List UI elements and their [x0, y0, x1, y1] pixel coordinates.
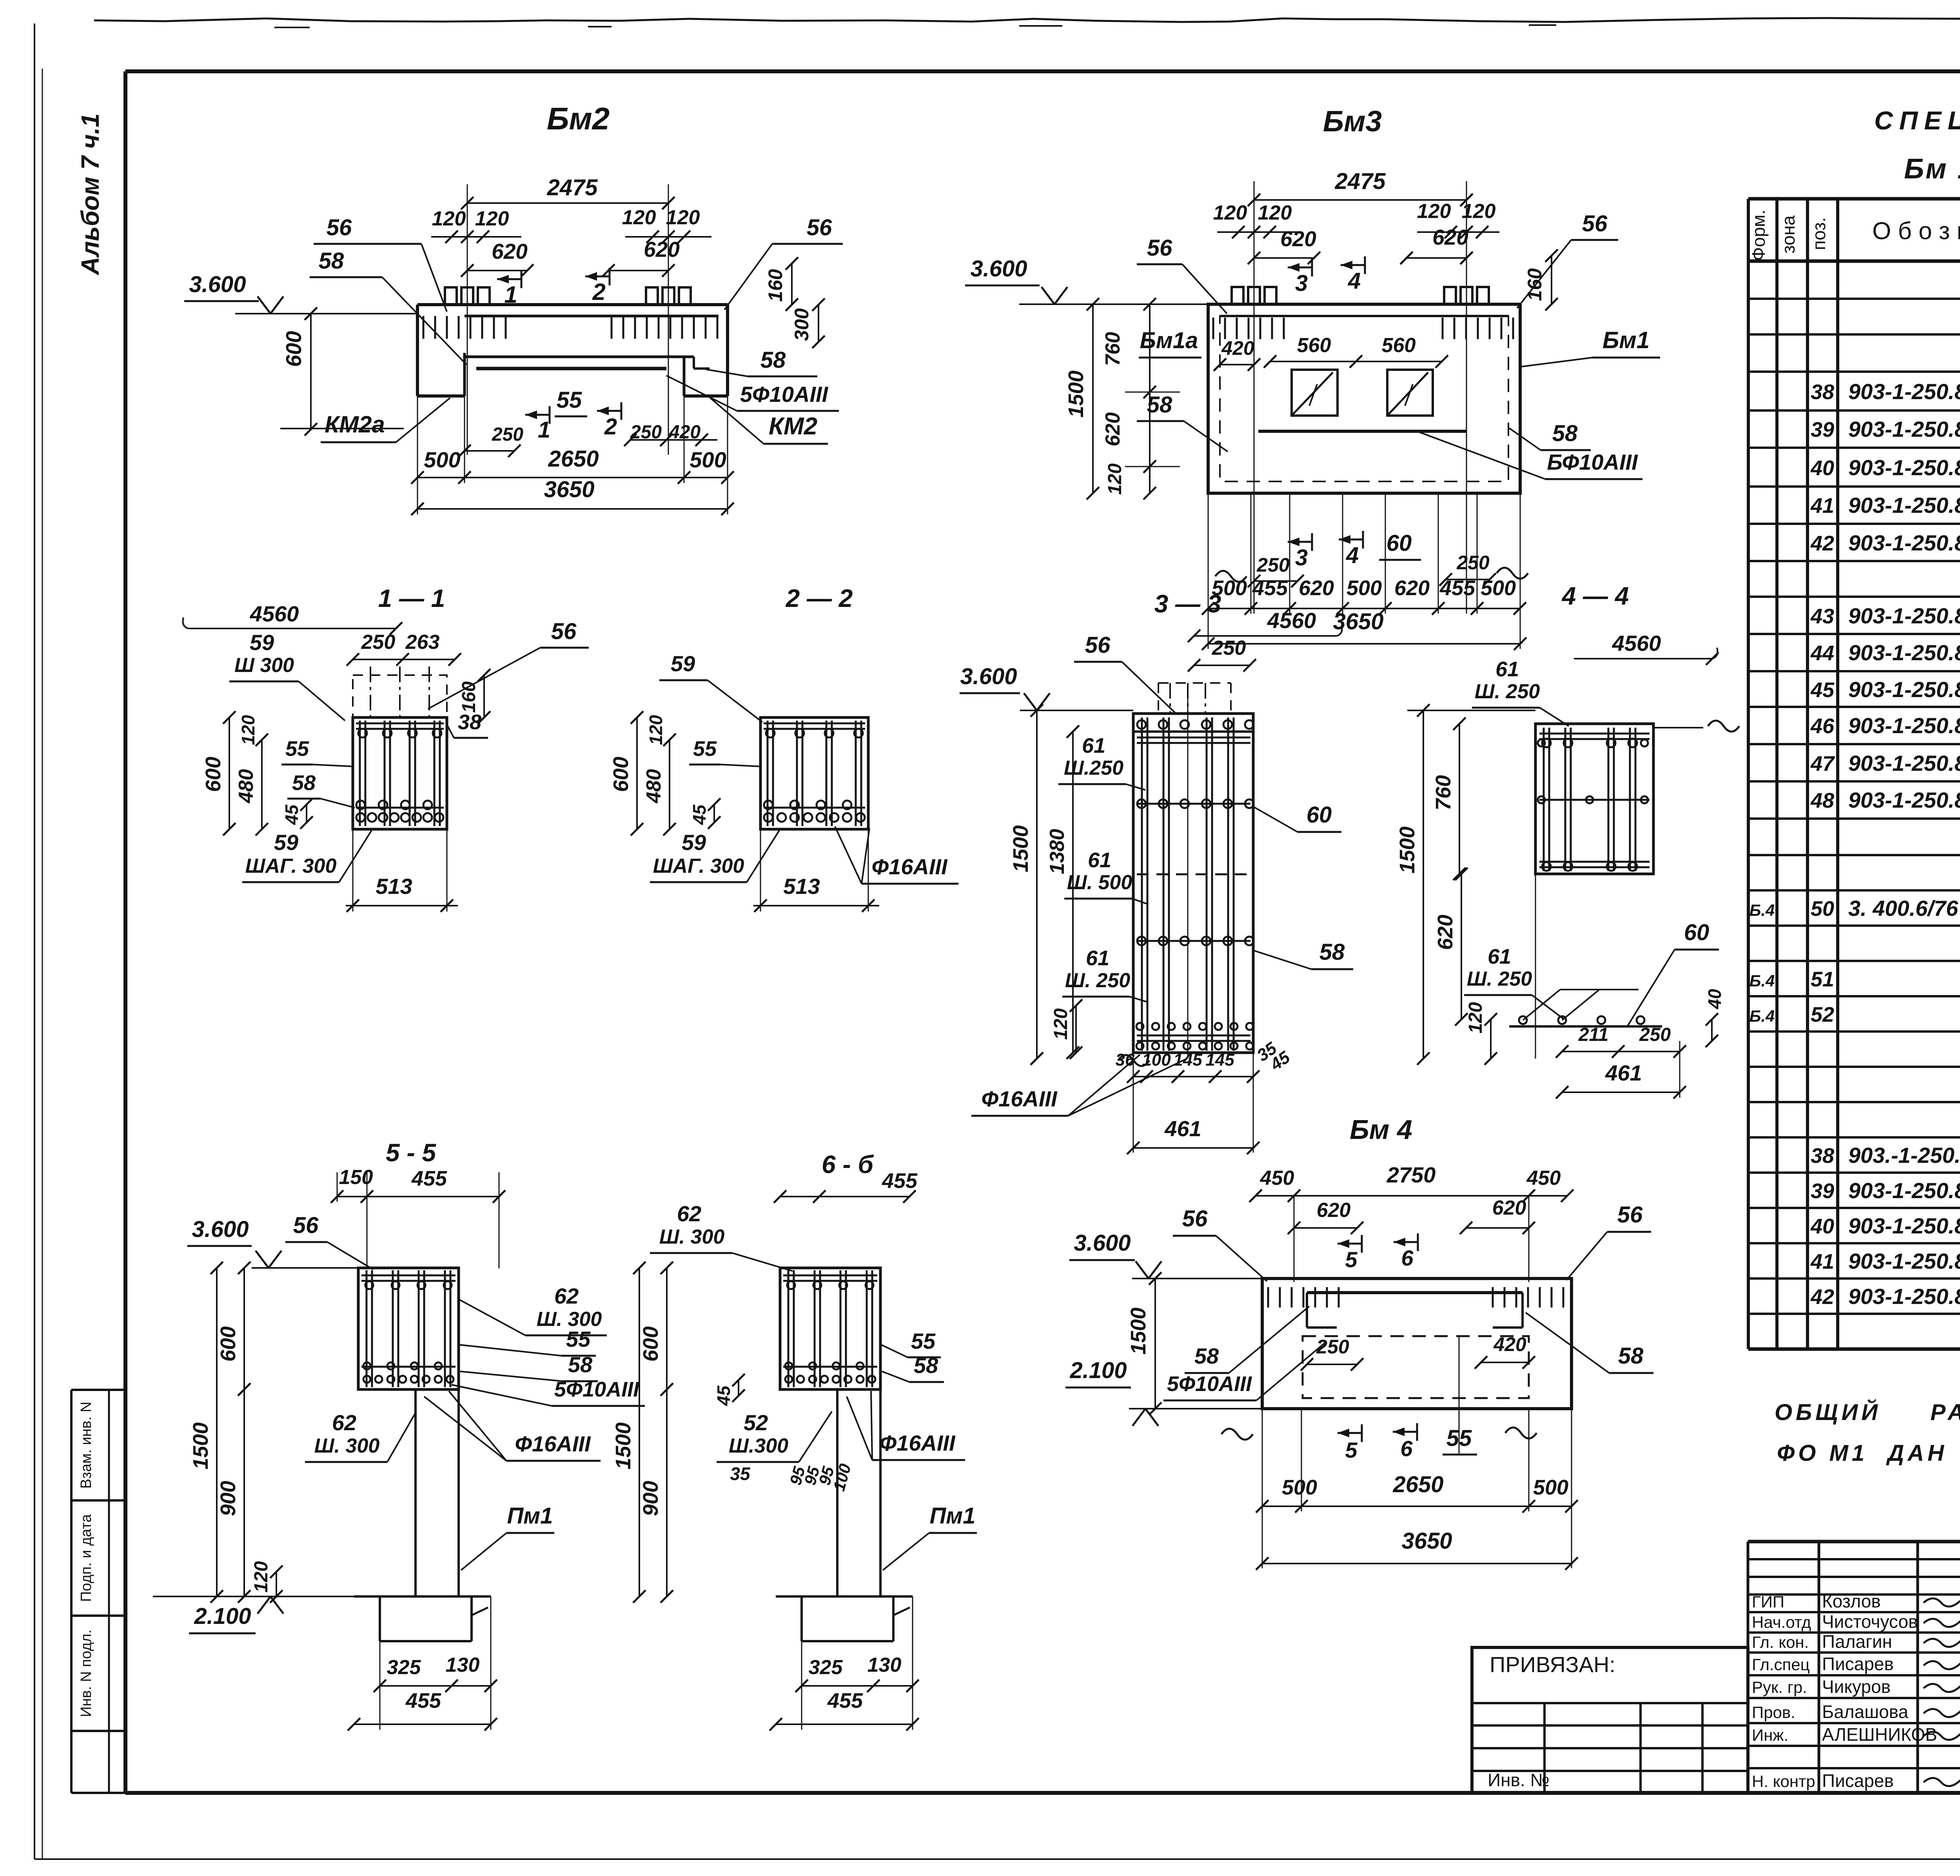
- svg-text:620: 620: [1102, 412, 1124, 447]
- svg-text:900: 900: [216, 1481, 240, 1516]
- svg-text:513: 513: [783, 874, 820, 899]
- svg-text:2750: 2750: [1387, 1162, 1436, 1187]
- svg-text:620: 620: [1299, 576, 1334, 600]
- svg-text:БФ10АIII: БФ10АIII: [1547, 450, 1638, 474]
- svg-text:55: 55: [911, 1329, 936, 1353]
- svg-text:56: 56: [1182, 1206, 1208, 1231]
- svg-text:61: 61: [1088, 848, 1111, 872]
- svg-text:620: 620: [492, 239, 528, 263]
- svg-text:Форм.: Форм.: [1748, 210, 1769, 261]
- svg-text:Взам. инв. N: Взам. инв. N: [78, 1402, 94, 1489]
- svg-text:42: 42: [1810, 532, 1834, 555]
- svg-text:130: 130: [446, 1654, 480, 1676]
- svg-text:2.100: 2.100: [194, 1604, 251, 1629]
- svg-text:5Ф10АIII: 5Ф10АIII: [554, 1378, 639, 1401]
- svg-text:903.-1-250.87- КЖ.И.7.3: 903.-1-250.87- КЖ.И.7.3: [1848, 1143, 1960, 1168]
- svg-text:зона: зона: [1778, 215, 1798, 254]
- svg-text:Инв. №: Инв. №: [1488, 1770, 1550, 1790]
- svg-text:Ш. 250: Ш. 250: [1065, 969, 1131, 992]
- svg-text:Нач.отд: Нач.отд: [1752, 1613, 1811, 1631]
- svg-text:56: 56: [327, 215, 352, 240]
- svg-text:1500: 1500: [1127, 1308, 1150, 1355]
- svg-text:903-1-250.87-КЖ.И. 7.7: 903-1-250.87-КЖ.И. 7.7: [1848, 677, 1960, 702]
- svg-text:620: 620: [1492, 1197, 1526, 1219]
- svg-text:Пров.: Пров.: [1752, 1703, 1795, 1722]
- svg-text:2650: 2650: [1392, 1472, 1443, 1497]
- svg-text:150: 150: [339, 1166, 373, 1189]
- svg-text:55: 55: [557, 387, 582, 413]
- svg-text:903-1-250.87-КЖ.И. 7.4: 903-1-250.87-КЖ.И. 7.4: [1848, 493, 1960, 518]
- svg-text:Ф16АIII: Ф16АIII: [515, 1431, 591, 1456]
- svg-text:903-1-250.87-КЖ. И.7.4: 903-1-250.87-КЖ. И.7.4: [1848, 1213, 1960, 1238]
- svg-text:АЛЕШНИКОВ: АЛЕШНИКОВ: [1822, 1724, 1937, 1745]
- svg-text:62: 62: [332, 1410, 356, 1435]
- svg-text:Пм1: Пм1: [930, 1503, 976, 1529]
- svg-text:3: 3: [1295, 271, 1308, 296]
- svg-text:40: 40: [1704, 989, 1725, 1010]
- svg-text:ОБЩИЙ РАСХОД БЕТОНА НА: ОБЩИЙ РАСХОД БЕТОНА НА ФУНДАМЕНТ: [1775, 1399, 1960, 1425]
- svg-text:480: 480: [642, 769, 665, 804]
- svg-text:903-1-250.87-КЖ.И.7. 4: 903-1-250.87-КЖ.И.7. 4: [1848, 455, 1960, 480]
- svg-text:903-1-250.87-КЖ.И.7.7: 903-1-250.87-КЖ.И.7.7: [1848, 603, 1960, 628]
- svg-text:455: 455: [827, 1689, 863, 1713]
- svg-text:120: 120: [1258, 202, 1292, 224]
- svg-text:Балашова: Балашова: [1822, 1702, 1909, 1722]
- svg-text:2: 2: [592, 279, 605, 305]
- svg-text:Ш. 500: Ш. 500: [1067, 871, 1132, 894]
- svg-text:2 — 2: 2 — 2: [786, 584, 853, 612]
- svg-text:55: 55: [285, 737, 309, 761]
- svg-text:600: 600: [201, 757, 225, 792]
- svg-text:3650: 3650: [1401, 1528, 1452, 1554]
- svg-text:61: 61: [1495, 657, 1519, 681]
- svg-text:325: 325: [809, 1656, 843, 1679]
- svg-text:903-1-250.87-КЖ.И.7.7: 903-1-250.87-КЖ.И.7.7: [1848, 713, 1960, 738]
- svg-text:45: 45: [281, 804, 302, 825]
- svg-text:56: 56: [1085, 632, 1111, 658]
- svg-text:4560: 4560: [1267, 608, 1316, 633]
- svg-text:Писарев: Писарев: [1822, 1654, 1894, 1674]
- svg-text:59: 59: [682, 830, 706, 855]
- svg-text:3.600: 3.600: [189, 272, 246, 297]
- svg-text:Подп. и дата: Подп. и дата: [78, 1514, 94, 1602]
- svg-text:900: 900: [639, 1481, 662, 1516]
- svg-text:3.600: 3.600: [960, 664, 1017, 689]
- svg-text:120: 120: [1213, 202, 1247, 224]
- svg-text:Ш. 250: Ш. 250: [1467, 968, 1532, 990]
- svg-text:40: 40: [1810, 1215, 1834, 1238]
- svg-text:39: 39: [1811, 1179, 1834, 1203]
- svg-text:58: 58: [568, 1352, 593, 1377]
- svg-text:ШАГ. 300: ШАГ. 300: [245, 855, 337, 877]
- svg-text:1380: 1380: [1046, 829, 1069, 874]
- svg-text:45: 45: [713, 1385, 734, 1406]
- svg-text:500: 500: [690, 447, 726, 472]
- svg-text:Бм1: Бм1: [1602, 327, 1650, 353]
- svg-text:Ф16АIII: Ф16АIII: [981, 1086, 1058, 1111]
- svg-text:ФО М1 ДАН НА ЛИСТЕ 40: ФО М1 ДАН НА ЛИСТЕ 40: [1777, 1440, 1960, 1466]
- svg-text:51: 51: [1811, 968, 1834, 991]
- svg-text:455: 455: [405, 1689, 441, 1713]
- svg-text:45: 45: [689, 804, 710, 825]
- svg-text:Чикуров: Чикуров: [1822, 1676, 1891, 1697]
- svg-text:56: 56: [293, 1213, 319, 1238]
- svg-text:903-1-250.87-КЖ. И. 7.3: 903-1-250.87-КЖ. И. 7.3: [1848, 1178, 1960, 1203]
- svg-text:61: 61: [1086, 946, 1109, 970]
- svg-text:58: 58: [292, 771, 316, 795]
- svg-text:120: 120: [1051, 1008, 1071, 1040]
- svg-text:60: 60: [1307, 802, 1332, 828]
- svg-text:46: 46: [1810, 714, 1835, 738]
- svg-text:58: 58: [914, 1353, 938, 1378]
- svg-text:420: 420: [1221, 337, 1254, 359]
- svg-text:120: 120: [238, 715, 258, 745]
- svg-text:620: 620: [1434, 915, 1457, 950]
- svg-text:480: 480: [235, 769, 258, 804]
- svg-text:3650: 3650: [544, 477, 594, 502]
- svg-text:СПЕЦИФИКАЦИЯ К БАЛКАМ: СПЕЦИФИКАЦИЯ К БАЛКАМ: [1874, 106, 1960, 135]
- svg-text:145: 145: [1173, 1050, 1202, 1070]
- svg-text:120: 120: [251, 1561, 272, 1593]
- svg-text:500: 500: [1533, 1476, 1568, 1499]
- svg-text:450: 450: [1526, 1167, 1561, 1190]
- svg-text:120: 120: [475, 207, 509, 230]
- svg-text:5Ф10АIII: 5Ф10АIII: [740, 382, 829, 407]
- svg-text:Инв. N подл.: Инв. N подл.: [78, 1629, 94, 1717]
- svg-text:61: 61: [1082, 734, 1105, 757]
- svg-text:160: 160: [459, 681, 479, 713]
- svg-text:Б.4: Б.4: [1749, 1007, 1775, 1025]
- svg-text:45: 45: [1810, 678, 1835, 702]
- svg-text:600: 600: [639, 1326, 662, 1362]
- svg-text:620: 620: [1432, 225, 1468, 249]
- svg-text:250: 250: [1456, 552, 1490, 574]
- svg-text:4560: 4560: [250, 601, 299, 626]
- svg-text:Б.4: Б.4: [1749, 972, 1775, 990]
- svg-text:Ш. 250: Ш. 250: [1475, 680, 1540, 703]
- svg-text:211: 211: [1578, 1024, 1609, 1045]
- svg-text:4 — 4: 4 — 4: [1561, 582, 1629, 610]
- svg-text:903-1-250.87-КЖ. И. 7.4: 903-1-250.87-КЖ. И. 7.4: [1848, 1249, 1960, 1273]
- svg-text:52: 52: [1811, 1003, 1834, 1026]
- svg-text:420: 420: [1493, 1333, 1526, 1355]
- svg-text:Гл.спец: Гл.спец: [1752, 1655, 1810, 1674]
- svg-text:2.100: 2.100: [1069, 1358, 1127, 1383]
- svg-text:120: 120: [432, 207, 466, 230]
- svg-text:325: 325: [387, 1656, 421, 1679]
- svg-text:58: 58: [1147, 392, 1172, 418]
- svg-text:560: 560: [1382, 334, 1416, 357]
- svg-text:Б.4: Б.4: [1749, 901, 1775, 919]
- svg-text:56: 56: [1582, 211, 1608, 236]
- svg-text:48: 48: [1810, 789, 1834, 812]
- svg-text:500: 500: [1481, 576, 1516, 600]
- svg-text:Бм1а: Бм1а: [1140, 328, 1198, 353]
- svg-text:1500: 1500: [1064, 370, 1088, 418]
- svg-text:Пм1: Пм1: [507, 1503, 553, 1529]
- svg-text:1500: 1500: [189, 1422, 212, 1469]
- svg-text:поз.: поз.: [1809, 217, 1829, 250]
- svg-text:760: 760: [1432, 775, 1455, 810]
- svg-text:6: 6: [1401, 1246, 1414, 1270]
- svg-text:50: 50: [1811, 897, 1834, 921]
- svg-text:Ф16АIII: Ф16АIII: [871, 854, 948, 879]
- svg-text:500: 500: [1347, 576, 1382, 600]
- svg-text:5Ф10АIII: 5Ф10АIII: [1167, 1372, 1252, 1396]
- svg-text:4: 4: [1348, 268, 1361, 294]
- svg-text:ГИП: ГИП: [1752, 1593, 1784, 1611]
- svg-text:120: 120: [666, 206, 700, 229]
- svg-text:59: 59: [250, 630, 274, 655]
- svg-text:56: 56: [1147, 235, 1172, 261]
- svg-text:250: 250: [492, 424, 523, 445]
- svg-text:Гл. кон.: Гл. кон.: [1752, 1633, 1809, 1651]
- svg-text:58: 58: [760, 347, 786, 373]
- svg-text:600: 600: [216, 1326, 240, 1362]
- svg-text:44: 44: [1810, 641, 1834, 665]
- svg-text:4560: 4560: [1612, 631, 1661, 656]
- svg-text:250: 250: [1256, 554, 1290, 576]
- svg-text:43: 43: [1810, 605, 1834, 628]
- svg-text:55: 55: [693, 737, 717, 761]
- svg-text:Н. контр: Н. контр: [1752, 1772, 1815, 1791]
- svg-text:О б о з н а ч е н и е: О б о з н а ч е н и е: [1872, 218, 1960, 245]
- svg-text:3.600: 3.600: [970, 256, 1027, 281]
- svg-text:Ш. 300: Ш. 300: [314, 1435, 380, 1457]
- svg-text:47: 47: [1810, 752, 1835, 775]
- svg-text:55: 55: [566, 1327, 591, 1351]
- svg-text:3: 3: [1295, 545, 1308, 570]
- svg-text:461: 461: [1164, 1116, 1201, 1141]
- svg-text:3.600: 3.600: [192, 1217, 249, 1242]
- svg-text:59: 59: [274, 830, 298, 855]
- svg-text:145: 145: [1205, 1050, 1234, 1070]
- svg-text:58: 58: [1194, 1344, 1219, 1368]
- svg-text:КМ2а: КМ2а: [325, 411, 385, 438]
- svg-text:903-1-250.87-КЖ.И.7.7: 903-1-250.87-КЖ.И.7.7: [1848, 788, 1960, 812]
- svg-text:903-1-250.87-КЖ.И.7.4: 903-1-250.87-КЖ.И.7.4: [1848, 530, 1960, 555]
- svg-text:Альбом 7 ч.1: Альбом 7 ч.1: [76, 113, 104, 276]
- svg-text:41: 41: [1810, 494, 1834, 518]
- svg-text:560: 560: [1297, 334, 1331, 357]
- svg-text:Чисточусов: Чисточусов: [1822, 1611, 1918, 1632]
- svg-text:300: 300: [791, 308, 813, 341]
- svg-text:903-1-250.87-КЖ. И. 7.3: 903-1-250.87-КЖ. И. 7.3: [1848, 417, 1960, 441]
- svg-text:59: 59: [671, 651, 695, 676]
- svg-text:5: 5: [1345, 1247, 1357, 1272]
- svg-text:513: 513: [376, 874, 412, 899]
- svg-text:2650: 2650: [548, 446, 599, 472]
- svg-text:620: 620: [1317, 1199, 1351, 1222]
- svg-text:903-1-250.87-КЖ.И. 7.7: 903-1-250.87-КЖ.И. 7.7: [1848, 640, 1960, 665]
- svg-text:42: 42: [1810, 1285, 1834, 1309]
- svg-text:455: 455: [411, 1167, 447, 1190]
- svg-text:760: 760: [1102, 332, 1124, 366]
- svg-text:62: 62: [554, 1284, 579, 1308]
- svg-text:62: 62: [677, 1201, 701, 1226]
- svg-text:2: 2: [604, 414, 617, 439]
- svg-text:120: 120: [1105, 463, 1125, 495]
- svg-text:120: 120: [646, 715, 666, 745]
- svg-text:1500: 1500: [1396, 826, 1419, 874]
- svg-text:5 - 5: 5 - 5: [386, 1139, 436, 1167]
- svg-text:56: 56: [1617, 1202, 1643, 1228]
- svg-text:Бм2: Бм2: [547, 101, 610, 136]
- svg-text:58: 58: [1319, 939, 1345, 965]
- svg-text:40: 40: [1810, 456, 1834, 480]
- svg-text:600: 600: [281, 331, 306, 367]
- svg-text:38: 38: [458, 710, 481, 734]
- svg-text:250: 250: [1212, 637, 1246, 659]
- svg-text:60: 60: [1684, 920, 1710, 945]
- svg-text:1 — 1: 1 — 1: [378, 584, 445, 612]
- svg-text:Ш.300: Ш.300: [729, 1435, 788, 1457]
- svg-text:5: 5: [1345, 1438, 1357, 1462]
- svg-text:2475: 2475: [546, 175, 598, 200]
- svg-text:Бм3: Бм3: [1323, 105, 1382, 138]
- svg-text:120: 120: [1417, 200, 1451, 223]
- svg-text:Ш 300: Ш 300: [234, 654, 294, 677]
- svg-text:3.600: 3.600: [1074, 1230, 1131, 1256]
- svg-text:1500: 1500: [612, 1422, 635, 1469]
- svg-text:250: 250: [1639, 1024, 1671, 1045]
- svg-text:6: 6: [1400, 1436, 1413, 1461]
- svg-text:903-1-250.87-КЖ.И. 7.3: 903-1-250.87-КЖ.И. 7.3: [1848, 379, 1960, 404]
- svg-text:120: 120: [1462, 200, 1496, 223]
- svg-text:58: 58: [1552, 421, 1578, 446]
- svg-text:56: 56: [807, 215, 832, 240]
- svg-text:620: 620: [1394, 576, 1430, 600]
- svg-text:120: 120: [622, 206, 656, 229]
- svg-text:500: 500: [424, 447, 460, 472]
- svg-text:2475: 2475: [1334, 169, 1386, 194]
- svg-text:Ф16АIII: Ф16АIII: [879, 1431, 956, 1455]
- svg-text:ПРИВЯЗАН:: ПРИВЯЗАН:: [1490, 1652, 1615, 1677]
- svg-text:130: 130: [867, 1654, 902, 1676]
- svg-text:56: 56: [551, 619, 577, 644]
- svg-text:1: 1: [538, 417, 550, 443]
- svg-text:600: 600: [609, 757, 633, 792]
- svg-text:263: 263: [405, 631, 440, 654]
- svg-text:250: 250: [361, 631, 396, 654]
- svg-text:Бм 1, Бм1а, Бм 2, Бм3, Б м: Бм 1, Бм1а, Бм 2, Бм3, Б м4: [1904, 153, 1960, 185]
- svg-text:Инж.: Инж.: [1752, 1726, 1788, 1744]
- svg-text:Писарев: Писарев: [1822, 1771, 1894, 1791]
- svg-text:450: 450: [1260, 1167, 1294, 1190]
- svg-text:Козлов: Козлов: [1822, 1591, 1881, 1611]
- svg-text:620: 620: [1280, 227, 1316, 251]
- svg-text:120: 120: [1465, 1002, 1486, 1033]
- svg-text:6 - б: 6 - б: [822, 1150, 874, 1179]
- svg-text:Рук. гр.: Рук. гр.: [1752, 1678, 1807, 1696]
- svg-text:58: 58: [319, 248, 344, 274]
- svg-text:3 — 3: 3 — 3: [1154, 590, 1221, 618]
- svg-text:35: 35: [730, 1464, 751, 1484]
- svg-text:1500: 1500: [1009, 825, 1033, 872]
- svg-text:903-1-250.87-КЖ.И.7.7: 903-1-250.87-КЖ.И.7.7: [1848, 751, 1960, 775]
- svg-text:4: 4: [1346, 543, 1359, 568]
- svg-text:Бм 4: Бм 4: [1350, 1114, 1412, 1145]
- svg-text:Палагин: Палагин: [1822, 1631, 1892, 1652]
- svg-text:41: 41: [1810, 1250, 1834, 1273]
- svg-text:3650: 3650: [1333, 609, 1383, 634]
- svg-text:455: 455: [1252, 576, 1288, 600]
- svg-text:61: 61: [1488, 945, 1511, 968]
- svg-text:ШАГ. 300: ШАГ. 300: [653, 855, 744, 877]
- svg-text:38: 38: [1811, 1144, 1834, 1168]
- svg-text:3. 400.6/76: 3. 400.6/76: [1848, 896, 1958, 921]
- svg-text:1: 1: [504, 281, 517, 308]
- svg-text:Ш. 300: Ш. 300: [659, 1226, 725, 1248]
- svg-text:500: 500: [1282, 1476, 1317, 1499]
- svg-text:КМ2: КМ2: [769, 413, 817, 440]
- svg-text:455: 455: [1439, 576, 1475, 600]
- svg-text:160: 160: [764, 269, 786, 302]
- svg-text:58: 58: [1618, 1343, 1644, 1369]
- svg-text:455: 455: [882, 1169, 918, 1193]
- svg-text:60: 60: [1387, 530, 1412, 556]
- svg-text:461: 461: [1605, 1061, 1642, 1085]
- svg-text:38: 38: [1811, 380, 1834, 404]
- svg-text:160: 160: [1524, 268, 1546, 301]
- svg-text:100: 100: [1142, 1050, 1171, 1070]
- svg-text:52: 52: [744, 1410, 768, 1435]
- svg-text:903-1-250.87-КЖ. И.7.4: 903-1-250.87-КЖ. И.7.4: [1848, 1284, 1960, 1309]
- svg-text:620: 620: [644, 237, 680, 262]
- svg-text:39: 39: [1811, 418, 1834, 441]
